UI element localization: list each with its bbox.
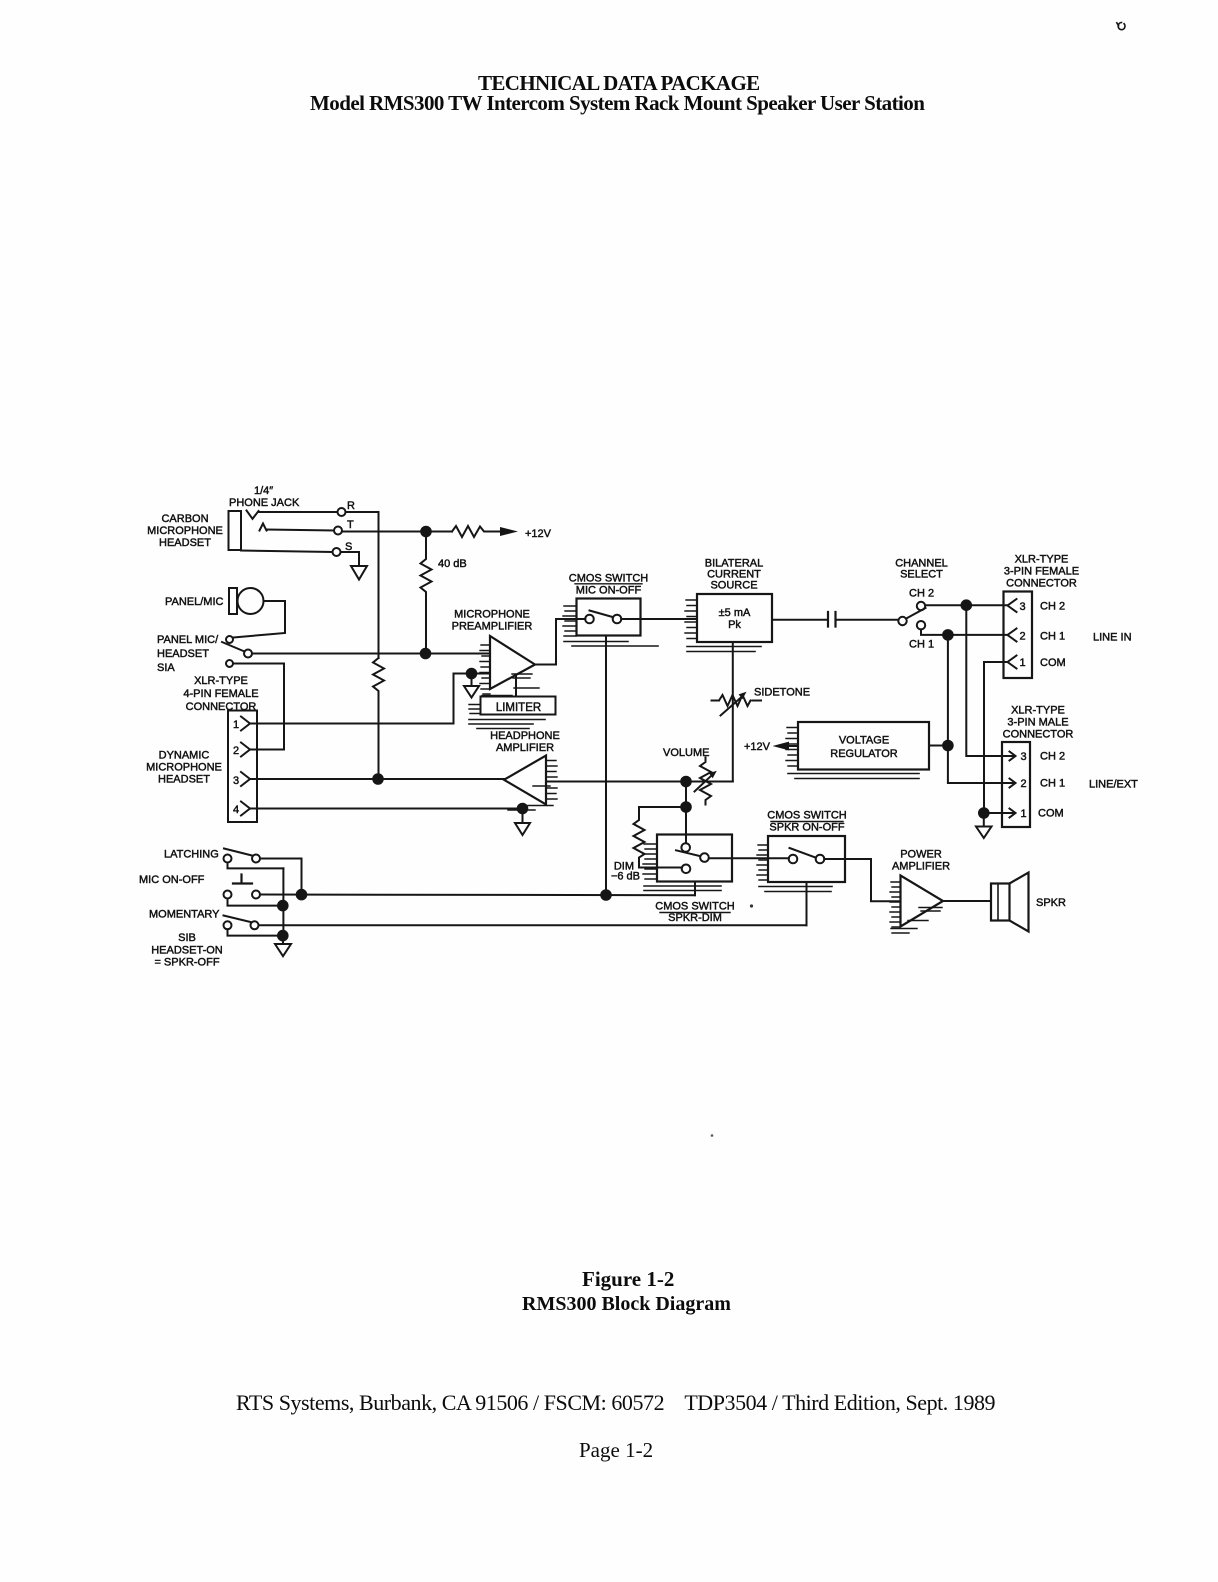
node latching junction <box>297 890 307 900</box>
label MOMENTARY <box>149 909 220 921</box>
hatching under U8 <box>891 908 942 934</box>
svg-text:1/4″: 1/4″ <box>254 485 273 497</box>
svg-text:T: T <box>347 519 354 531</box>
wire mic control line <box>260 894 695 897</box>
switch U7 arm <box>790 848 816 857</box>
pin 1 <box>233 717 250 732</box>
svg-text:CH 2: CH 2 <box>909 588 934 600</box>
wire U6 control stub <box>694 882 696 896</box>
phone jack tip spring contact <box>247 511 259 519</box>
wire jack tip to R <box>259 511 338 513</box>
wire volume to spkr-dim switch <box>685 782 687 844</box>
node CH1 junction <box>943 630 953 640</box>
label LATCHING <box>164 849 219 861</box>
op-amp U4 headphone amplifier <box>504 756 546 805</box>
switch U6 arm <box>676 850 700 856</box>
svg-text:SPKR-DIM: SPKR-DIM <box>668 912 722 924</box>
label BILATERAL CURRENT SOURCE <box>705 558 764 592</box>
wire S3 bottom bracket <box>228 863 284 869</box>
svg-text:COM: COM <box>1038 808 1064 820</box>
svg-text:HEADPHONE: HEADPHONE <box>490 730 560 742</box>
label SIB HEADSET-ON = SPKR-OFF <box>151 932 223 969</box>
scan artifact top right <box>1117 23 1125 30</box>
svg-text:CH 1: CH 1 <box>1040 631 1065 643</box>
label CHANNEL SELECT <box>895 558 948 581</box>
svg-text:3: 3 <box>233 775 239 787</box>
svg-text:40 dB: 40 dB <box>438 558 467 570</box>
node T junction <box>421 527 431 537</box>
wire U8 output to speaker <box>943 900 991 902</box>
wire pin3 to headphone amp output <box>250 778 504 780</box>
label 1/4" PHONE JACK <box>229 485 300 509</box>
wire jack ring to T <box>267 530 335 531</box>
wire U6 output to spkr on-off <box>709 857 789 859</box>
switch S3 arm <box>224 849 252 856</box>
svg-text:PANEL/MIC: PANEL/MIC <box>165 596 224 608</box>
svg-text:CARBON: CARBON <box>161 513 208 525</box>
svg-text:PREAMPLIFIER: PREAMPLIFIER <box>452 621 533 633</box>
wire headphone amp input line <box>546 781 733 783</box>
wire U2 output to current source <box>621 618 697 620</box>
connector J3 XLR 3-pin female <box>1004 592 1033 679</box>
node regulator junction <box>943 741 953 751</box>
+12V arrow <box>500 527 552 540</box>
label PANEL MIC/ HEADSET SIA <box>157 634 219 674</box>
header title line 2 <box>310 91 924 116</box>
svg-text:MIC ON-OFF: MIC ON-OFF <box>576 585 642 597</box>
switch U7 contacts <box>789 855 825 864</box>
resistor 40 dB <box>421 536 467 650</box>
potentiometer VOLUME <box>695 758 717 805</box>
svg-text:AMPLIFIER: AMPLIFIER <box>892 861 950 873</box>
node volume top junction <box>681 777 691 787</box>
svg-text:AMPLIFIER: AMPLIFIER <box>496 742 554 754</box>
node cmos mic control junction <box>601 890 611 900</box>
hatching under U7 <box>759 887 832 892</box>
wire CH2 net to male pin3 <box>966 605 1006 756</box>
svg-text:LINE IN: LINE IN <box>1093 632 1132 644</box>
panel microphone symbol <box>229 588 264 614</box>
svg-text:CH 1: CH 1 <box>1040 778 1065 790</box>
label HEADPHONE AMPLIFIER <box>490 730 560 754</box>
header title line 1 <box>478 71 760 96</box>
wire CH1 net to male pin2 <box>948 635 1006 783</box>
svg-text:SIB: SIB <box>178 932 196 944</box>
J4 pin 2 <box>1006 778 1065 791</box>
svg-text:XLR-TYPE: XLR-TYPE <box>194 675 248 687</box>
switch S2 channel select pole <box>898 617 906 625</box>
switch S1A contacts <box>226 636 252 667</box>
svg-text:CMOS SWITCH: CMOS SWITCH <box>767 810 846 822</box>
hatching right of U4 <box>508 761 557 811</box>
limiter block <box>481 697 556 715</box>
label POWER AMPLIFIER <box>892 849 950 873</box>
wire U5 output to CH1 net <box>929 745 948 747</box>
scan artifact small dot <box>711 1134 714 1137</box>
wire CH2 net to female pin3 <box>925 604 1008 606</box>
wire CH1 contact stub <box>921 629 1008 635</box>
hatching left of U7 <box>757 845 768 880</box>
switch S1A arm <box>222 642 245 652</box>
wire U7 output to power amp <box>824 859 900 901</box>
svg-text:HEADSET: HEADSET <box>158 774 210 786</box>
svg-text:+12V: +12V <box>525 528 552 540</box>
ground (switch common) <box>275 936 291 957</box>
hatching under U5 <box>788 774 919 779</box>
svg-text:VOLUME: VOLUME <box>663 747 709 759</box>
svg-text:−6 dB: −6 dB <box>611 871 640 883</box>
svg-text:3: 3 <box>1021 751 1027 763</box>
connector J4 XLR 3-pin male <box>1002 742 1030 827</box>
hatching left of limiter <box>469 705 480 714</box>
J4 pin 3 <box>1006 751 1065 764</box>
potentiometer SIDETONE <box>712 687 811 716</box>
switch S3 latching contacts <box>224 855 261 863</box>
label MICROPHONE PREAMPLIFIER <box>452 609 533 633</box>
wire U3 output to capacitor <box>772 619 827 621</box>
resistor to +12V <box>452 526 500 537</box>
svg-text:Pk: Pk <box>728 619 741 631</box>
svg-text:SIDETONE: SIDETONE <box>754 687 810 699</box>
ground (preamp input) <box>464 678 479 698</box>
svg-text:LATCHING: LATCHING <box>164 849 219 861</box>
svg-text:MOMENTARY: MOMENTARY <box>149 909 220 921</box>
wire U7 control stub <box>806 882 808 925</box>
op-amp U8 power amplifier <box>901 876 944 927</box>
svg-text:REGULATOR: REGULATOR <box>830 748 897 760</box>
label XLR-TYPE 3-PIN MALE CONNECTOR <box>1003 705 1074 741</box>
svg-text:3: 3 <box>1020 601 1026 613</box>
phone jack J1 body <box>229 511 242 550</box>
CMOS switch U7 spkr on-off box <box>768 836 845 882</box>
wire panel mic to SIA top contact <box>233 601 285 638</box>
label DYNAMIC MICROPHONE HEADSET <box>146 750 222 786</box>
svg-text:DYNAMIC: DYNAMIC <box>159 750 210 762</box>
hatching under U3 <box>687 647 761 652</box>
switch S5 arm <box>224 916 251 923</box>
pin 3 <box>233 772 250 787</box>
hatching left of U6 <box>643 844 657 879</box>
wire jack sleeve to S <box>241 551 333 553</box>
svg-text:SIA: SIA <box>157 662 175 674</box>
hatching left of preamp <box>480 645 490 694</box>
hatching left of U8 <box>890 882 900 927</box>
wire pin2 stub <box>250 749 284 751</box>
wire pin1 to preamp low input <box>250 674 490 724</box>
+12V arrow <box>773 742 799 751</box>
svg-text:PHONE JACK: PHONE JACK <box>229 497 300 509</box>
wire S5 bottom bracket <box>228 929 283 935</box>
J3 pin 2 <box>1008 629 1066 643</box>
svg-text:2: 2 <box>1020 631 1026 643</box>
svg-text:HEADSET: HEADSET <box>157 648 209 660</box>
switch S2 CH2 contact <box>909 588 934 611</box>
hatching under preamp <box>482 674 539 696</box>
label LINE/EXT <box>1089 779 1138 791</box>
wire U3 sidetone stub <box>732 642 734 782</box>
contact S <box>333 541 353 556</box>
wire switch common vertical <box>282 868 284 935</box>
wire S4 bottom bracket <box>228 899 283 906</box>
switch S5 momentary contacts <box>224 921 259 929</box>
label LINE IN <box>1093 632 1132 644</box>
svg-text:MICROPHONE: MICROPHONE <box>454 609 530 621</box>
svg-text:R: R <box>347 500 355 512</box>
label CMOS SWITCH SPKR ON-OFF <box>767 810 846 834</box>
pin 2 <box>233 743 250 758</box>
svg-text:LIMITER: LIMITER <box>496 702 541 714</box>
node S4 common junction <box>278 901 288 911</box>
svg-text:CH 2: CH 2 <box>1040 601 1065 613</box>
switch U2 arm <box>590 611 613 618</box>
svg-text:CMOS SWITCH: CMOS SWITCH <box>569 573 648 585</box>
footer publisher line <box>236 1390 995 1416</box>
wire capacitor to channel select pole <box>836 619 899 621</box>
figure caption line 1 <box>582 1267 674 1292</box>
label PANEL/MIC <box>165 596 224 608</box>
wire T to +12V node <box>342 531 452 533</box>
wire pin4 to ground <box>250 808 523 810</box>
label MIC ON-OFF <box>139 874 205 886</box>
svg-text:SPKR: SPKR <box>1036 897 1066 909</box>
op-amp U1 microphone preamplifier <box>490 636 535 689</box>
hatching left of U3 <box>685 600 697 639</box>
svg-text:3-PIN FEMALE: 3-PIN FEMALE <box>1004 566 1079 578</box>
node COM junction <box>979 808 989 818</box>
wire S to ground <box>341 552 360 566</box>
svg-text:SOURCE: SOURCE <box>710 580 757 592</box>
wire U2 control line vertical <box>605 636 607 896</box>
svg-text:+12V: +12V <box>744 741 771 753</box>
svg-text:MICROPHONE: MICROPHONE <box>147 525 223 537</box>
svg-text:HEADSET-ON: HEADSET-ON <box>151 945 223 957</box>
label XLR-TYPE 4-PIN FEMALE CONNECTOR <box>183 675 258 713</box>
svg-text:1: 1 <box>1020 657 1026 669</box>
svg-text:= SPKR-OFF: = SPKR-OFF <box>154 957 219 969</box>
node S5 common junction <box>278 931 288 941</box>
hatching under U6 <box>644 886 721 891</box>
label CMOS SWITCH SPKR-DIM <box>655 901 734 925</box>
push-button symbol <box>233 875 252 884</box>
switch U6 contacts <box>681 843 708 873</box>
label CARBON MICROPHONE HEADSET <box>147 513 223 549</box>
svg-text:1: 1 <box>233 719 239 731</box>
svg-text:SPKR ON-OFF: SPKR ON-OFF <box>769 822 844 834</box>
wire S1A pole to preamp input <box>252 653 490 655</box>
CMOS switch U6 spkr-dim box <box>657 835 732 882</box>
hatching left of U2 <box>563 606 576 636</box>
phone jack ring spring contact <box>260 524 267 531</box>
label DIM -6 dB <box>611 861 640 883</box>
switch S4 mic on-off contacts <box>224 891 261 899</box>
svg-text:CONNECTOR: CONNECTOR <box>1006 578 1077 590</box>
node pin3 junction <box>373 774 383 784</box>
period artifact <box>750 904 753 907</box>
ground (pin4) <box>515 813 530 835</box>
node 40dB junction <box>421 649 431 659</box>
hatching under limiter <box>469 720 545 729</box>
hatching under U2 <box>564 642 658 647</box>
svg-text:XLR-TYPE: XLR-TYPE <box>1015 554 1069 566</box>
wire spkr control line <box>259 924 807 926</box>
resistor on R line <box>373 658 384 775</box>
svg-text:MIC ON-OFF: MIC ON-OFF <box>139 874 205 886</box>
CMOS switch U2 mic on-off box <box>577 599 641 636</box>
J3 pin 3 <box>1008 599 1066 613</box>
svg-text:COM: COM <box>1040 657 1066 669</box>
svg-text:LINE/EXT: LINE/EXT <box>1089 779 1138 791</box>
node volume lower junction <box>681 802 691 812</box>
ground (COM) <box>976 818 992 839</box>
wire S3 to control net <box>260 859 302 895</box>
wire COM net female to male <box>984 662 1008 813</box>
svg-text:1: 1 <box>1021 808 1027 820</box>
figure caption line 2 <box>522 1293 731 1316</box>
label XLR-TYPE 3-PIN FEMALE CONNECTOR <box>1004 554 1079 590</box>
svg-text:CONNECTOR: CONNECTOR <box>1003 729 1074 741</box>
svg-text:4‑PIN FEMALE: 4‑PIN FEMALE <box>183 688 258 700</box>
hatching left of U5 <box>786 728 798 767</box>
connector J2 XLR 4-pin female <box>228 711 257 823</box>
svg-text:2: 2 <box>1021 778 1027 790</box>
svg-text:3-PIN MALE: 3-PIN MALE <box>1007 717 1068 729</box>
svg-text:MICROPHONE: MICROPHONE <box>146 762 222 774</box>
switch S2 CH1 contact <box>909 621 934 651</box>
speaker SPKR <box>991 873 1066 932</box>
wire limiter stub <box>515 676 517 697</box>
wire S1A lower contact to XLR pin2 <box>233 664 284 750</box>
wire R to ring-line vertical <box>346 512 379 658</box>
svg-text:POWER: POWER <box>900 849 942 861</box>
svg-text:CH 2: CH 2 <box>1040 751 1065 763</box>
wire preamp output to CMOS switch <box>535 619 585 665</box>
J3 pin 1 <box>1008 656 1066 670</box>
contact T <box>334 519 354 535</box>
node CH2 junction <box>962 600 972 610</box>
capacitor C1 <box>828 612 836 627</box>
svg-text:HEADSET: HEADSET <box>159 537 211 549</box>
bilateral current source block U3 <box>697 594 772 642</box>
svg-text:4: 4 <box>233 804 239 816</box>
svg-text:VOLTAGE: VOLTAGE <box>839 735 889 747</box>
node preamp low input junction <box>467 669 477 679</box>
svg-text:CH 1: CH 1 <box>909 639 934 651</box>
ground (phone jack sleeve) <box>351 566 367 580</box>
svg-text:CMOS SWITCH: CMOS SWITCH <box>655 901 734 913</box>
svg-text:±5 mA: ±5 mA <box>719 607 751 619</box>
voltage regulator block U5 <box>798 722 929 770</box>
J4 pin 1 <box>1006 808 1064 821</box>
label CMOS SWITCH MIC ON-OFF <box>569 573 648 597</box>
svg-text:SELECT: SELECT <box>900 569 943 581</box>
resistor DIM -6 dB <box>634 807 687 868</box>
node pin4 ground junction <box>518 804 528 814</box>
label VOLUME <box>663 747 709 759</box>
contact R <box>338 500 356 516</box>
pin 4 <box>233 802 250 817</box>
footer page number <box>579 1438 653 1463</box>
svg-text:2: 2 <box>233 745 239 757</box>
label +12V regulator output <box>744 741 771 753</box>
svg-text:XLR-TYPE: XLR-TYPE <box>1011 705 1065 717</box>
switch S2 arm <box>906 608 925 619</box>
switch U2 contacts <box>585 615 621 624</box>
svg-text:PANEL MIC/: PANEL MIC/ <box>157 634 219 646</box>
